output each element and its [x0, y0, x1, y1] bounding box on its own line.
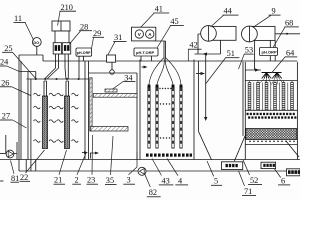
wire leader 9	[254, 15, 272, 27]
svg-text:68: 68	[285, 18, 293, 27]
component outlet box C	[287, 169, 301, 176]
node tank1 right wall outer / tank2 left wall	[88, 61, 90, 160]
wire leader 21	[59, 150, 67, 175]
wire outlet diagonal right edge	[286, 141, 299, 157]
wire electrode hanger right	[66, 81, 69, 96]
wire leader 210	[58, 12, 60, 26]
wire leader 64	[272, 57, 286, 73]
wire leader 34	[112, 82, 123, 90]
node tank1 right wall inner	[84, 61, 86, 160]
svg-text:6: 6	[281, 176, 285, 185]
component tank2 lower shelf 35	[91, 127, 128, 132]
svg-text:22: 22	[20, 173, 28, 182]
svg-text:34: 34	[124, 73, 133, 82]
component V-A meter box 41	[132, 27, 156, 41]
wire spray feed pipe	[245, 40, 261, 70]
wire leader 43	[152, 159, 162, 176]
node wall extensions below floor	[19, 160, 36, 172]
svg-text:pH.T.ORP: pH.T.ORP	[136, 50, 155, 55]
leader lines	[7, 12, 285, 188]
node water ripple marks tank1	[34, 93, 79, 142]
wire leader 35	[111, 136, 114, 175]
svg-text:5: 5	[214, 177, 218, 186]
wire leader 26	[12, 87, 31, 96]
node tank1 outer left wall second line	[20, 61, 22, 160]
wire leader 52	[243, 160, 250, 175]
component spray nozzles 64	[262, 73, 282, 79]
svg-text:41: 41	[155, 5, 163, 14]
node flow arrow tank3 inlet	[142, 66, 147, 68]
wire channel top	[19, 71, 36, 73]
wire riser to pump 81	[5, 135, 7, 154]
svg-text:11: 11	[14, 14, 22, 23]
electrode 22 left plate tank1	[43, 96, 48, 149]
svg-text:23: 23	[87, 176, 95, 185]
node dotted support row	[249, 141, 295, 143]
node packing bed top line	[245, 80, 297, 82]
component power supply box 210	[52, 21, 70, 31]
node tank2 right wall	[136, 73, 138, 160]
node flow arrows at tank2 bottom	[82, 152, 86, 154]
svg-text:9: 9	[272, 7, 276, 16]
small instrument texts	[33, 32, 277, 55]
svg-text:4: 4	[178, 176, 183, 185]
component nozzle circle on tank2	[110, 70, 115, 75]
node left arrowhead on pipe	[203, 52, 208, 55]
component valve box 31 on pipe	[107, 55, 116, 62]
svg-text:DO: DO	[33, 40, 39, 45]
wire leader 53	[239, 54, 245, 69]
component transfer box A	[222, 162, 243, 170]
node tank4 false floor	[245, 144, 297, 146]
wire top main pipe	[43, 60, 297, 62]
component packing media columns	[250, 81, 293, 111]
node tank1 outer left wall	[18, 55, 20, 160]
wire lower drain line	[19, 170, 287, 172]
component dark media band	[247, 113, 297, 119]
node tank4 downcomer wall 53	[242, 62, 244, 136]
svg-text:21: 21	[54, 176, 62, 185]
component crosshatch filter layer 52	[246, 129, 297, 140]
component transfer box B	[261, 162, 276, 168]
svg-text:24: 24	[0, 58, 9, 67]
wire leader 51	[206, 58, 226, 84]
component support grid 43 dark dashes	[146, 154, 192, 157]
svg-text:53: 53	[245, 46, 253, 55]
svg-text:42: 42	[189, 41, 197, 50]
wire leader 22	[26, 150, 45, 173]
wire pump44 discharge horizontal	[195, 40, 221, 54]
wire pump44 discharge downpipe	[205, 54, 207, 119]
wire leader 29	[92, 38, 94, 49]
component connector box right 28	[62, 43, 70, 54]
wire leader 4	[167, 159, 178, 176]
svg-text:52: 52	[250, 176, 258, 185]
wire leader 27	[13, 120, 27, 128]
wire tank3 crossing wires	[149, 58, 181, 85]
component pump 9	[249, 26, 275, 40]
node settling tank 5 left wall	[197, 61, 199, 131]
wire leader 71	[239, 171, 245, 186]
node tank4 left wall	[244, 62, 246, 160]
wire pump9 suction	[270, 40, 275, 61]
node flow arrow into settling tank	[196, 73, 203, 75]
component pH.T.ORP meter 45	[134, 48, 158, 56]
component pump 81	[0, 153, 6, 155]
wire leader 42	[187, 49, 189, 61]
wire leader 68	[273, 27, 285, 47]
wire probe lines from pH.T.ORP	[141, 56, 152, 61]
node tank2 inner vertical plate 23	[90, 78, 92, 131]
node packing bed bottom line	[245, 109, 297, 111]
wire leader 2	[77, 152, 87, 175]
svg-text:29: 29	[93, 29, 101, 38]
svg-text:82: 82	[149, 188, 157, 197]
wire leads to tank3 stubs	[156, 41, 166, 58]
wire DO meter stem	[36, 46, 38, 55]
wire leader 41	[141, 13, 155, 27]
node tank1 second inner wall	[30, 79, 32, 160]
svg-text:35: 35	[106, 176, 114, 185]
wire inlet pipe top-left	[19, 55, 43, 61]
node main floor line	[0, 159, 300, 161]
wire leader 31	[108, 42, 115, 55]
electrode plates tank3 (dashed bars)	[149, 88, 181, 149]
wire leader 24	[7, 66, 19, 71]
component DO meter 11	[32, 38, 41, 47]
wire leader 5	[207, 161, 214, 176]
wire nozzle stem into tank2	[111, 62, 113, 70]
wire leader 11	[25, 22, 34, 40]
svg-text:71: 71	[244, 187, 252, 196]
node left edge stub	[0, 180, 4, 182]
node channel wall short	[35, 72, 37, 80]
wire leader 6	[275, 169, 281, 178]
node dots rows tank3	[159, 88, 171, 139]
wire pump44 suction	[198, 34, 201, 54]
node tank1 inner channel wall	[27, 72, 29, 160]
svg-text:26: 26	[1, 78, 9, 87]
node down arrowhead	[204, 117, 207, 121]
wire electrode hanger left	[44, 81, 47, 96]
svg-text:210: 210	[61, 3, 73, 12]
wire pump9 outlet to right	[275, 33, 300, 35]
component connector box left 28	[53, 43, 61, 54]
node tank3 right wall	[193, 60, 195, 160]
node tank3 left wall	[139, 60, 141, 160]
wire leader 28	[69, 31, 81, 45]
svg-text:27: 27	[2, 112, 10, 121]
svg-text:3: 3	[127, 176, 131, 185]
component tank2 upper shelf 34	[93, 94, 137, 98]
reference labels	[0, 3, 299, 197]
wire leader 82	[145, 174, 151, 187]
component pump 82	[138, 167, 146, 175]
wire leader 45	[157, 26, 171, 48]
wire leader 44	[211, 15, 224, 27]
component pH-ORP meter 29	[76, 48, 92, 56]
node junction dots on busbar	[35, 78, 80, 80]
component pump 44	[209, 26, 237, 40]
component pH.ORP meter 68	[260, 48, 278, 56]
svg-text:44: 44	[224, 7, 233, 16]
svg-text:pH-ORP: pH-ORP	[77, 51, 91, 55]
svg-text:pH.ORP: pH.ORP	[262, 50, 277, 55]
svg-text:28: 28	[80, 22, 88, 31]
svg-text:81: 81	[11, 174, 19, 183]
svg-text:43: 43	[162, 176, 170, 185]
wire leader 23	[91, 135, 94, 175]
node tank4 right wall	[296, 62, 298, 160]
svg-text:64: 64	[286, 48, 295, 57]
svg-text:25: 25	[4, 44, 12, 53]
node arrow on spray pipe	[255, 68, 260, 71]
wire leader 3	[129, 152, 138, 175]
node settling tank hopper left slope	[198, 131, 211, 160]
svg-text:2: 2	[75, 176, 79, 185]
wire power leads from connector boxes	[45, 54, 69, 79]
wire busbar over tank1	[27, 78, 89, 80]
wire leader 25	[13, 52, 36, 78]
svg-text:31: 31	[114, 33, 122, 42]
wire leader 81	[11, 161, 15, 174]
svg-text:51: 51	[227, 49, 235, 58]
svg-text:45: 45	[170, 17, 178, 26]
electrode 21 right plate tank1	[65, 96, 70, 149]
node settling tank hopper right slope	[234, 136, 245, 161]
wire probe line from pH-ORP meter	[79, 56, 84, 79]
node electrode terminal blocks	[148, 85, 183, 88]
node tank2 top wall	[89, 72, 138, 74]
